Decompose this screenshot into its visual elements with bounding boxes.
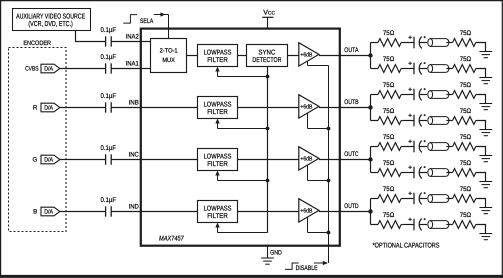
wire branch C2 lead: [371, 172, 379, 174]
wire to output cap (branch A2): [401, 68, 414, 70]
disable wire with arrow: [314, 261, 328, 265]
svg-text:SYNC: SYNC: [258, 49, 275, 56]
svg-text:75Ω: 75Ω: [460, 186, 471, 193]
svg-text:+6dB: +6dB: [300, 208, 312, 215]
D/A converter (R): [41, 103, 60, 112]
amp D enable stub wire: [308, 217, 329, 232]
D/A converter (B): [41, 207, 60, 216]
resistor 75ohm series (branch A2): [378, 56, 401, 73]
wire INC pin to lowpass filter C: [141, 159, 198, 161]
coax connector (branch A1): [428, 39, 449, 47]
svg-text:OUTB: OUTB: [344, 99, 359, 106]
amp A enable stub wire: [308, 61, 329, 65]
wire amp C to OUTC pin: [319, 159, 341, 161]
svg-text:75Ω: 75Ω: [383, 212, 394, 219]
resistor 75ohm load (branch C1): [453, 134, 476, 151]
wire to output cap (branch B2): [401, 120, 414, 122]
resistor 75ohm load (branch A2): [453, 56, 476, 73]
wire connector to load resistor (branch B1): [446, 94, 452, 96]
riser wire OUTB branches: [370, 95, 372, 121]
wire cap to INA2 pin: [111, 41, 141, 43]
wire lowpass filter C to amp C: [238, 159, 299, 161]
op-amp +6dB (channel D): [299, 199, 319, 222]
wire amp B to OUTB pin: [319, 107, 341, 109]
wire connector to load resistor (branch D1): [446, 198, 452, 200]
feedback line to lowpass filter A with arrow: [215, 67, 267, 77]
wire cap to INC pin: [111, 159, 141, 161]
resistor 75ohm series (branch B2): [378, 108, 401, 125]
wire OUTA to splitter node: [341, 55, 371, 57]
wire branch C1 lead: [371, 146, 379, 148]
wire to output cap (branch D1): [401, 198, 414, 200]
wire D/A to coupling cap (INC): [60, 159, 105, 161]
wire to output cap (branch C1): [401, 146, 414, 148]
svg-text:MUX: MUX: [162, 57, 174, 64]
capacitor optional output (branch A1): [408, 36, 425, 49]
wire cap to connector (branch D1): [419, 198, 427, 200]
wire OUTB to splitter node: [341, 107, 371, 109]
lowpass filter block (channel B): [198, 97, 238, 119]
op-amp +6dB (channel C): [299, 147, 319, 170]
wire branch A1 lead: [371, 42, 379, 44]
wire D/A to coupling cap (INB): [60, 107, 105, 109]
lowpass filter block (channel C): [198, 149, 238, 171]
resistor 75ohm series (branch C2): [378, 160, 401, 177]
capacitor optional output (branch C2): [408, 166, 425, 179]
wire connector to load resistor (branch A1): [446, 42, 452, 44]
resistor 75ohm load (branch B2): [453, 108, 476, 125]
svg-text:D/A: D/A: [44, 209, 53, 216]
wire to output cap (branch A1): [401, 42, 414, 44]
capacitor C5 0.1uF (IND): [101, 197, 117, 217]
wire to output cap (branch B1): [401, 94, 414, 96]
wire cap to connector (branch C2): [419, 172, 427, 174]
svg-text:75Ω: 75Ω: [460, 134, 471, 141]
2-to-1 mux block: [151, 39, 187, 73]
svg-text:D/A: D/A: [44, 105, 53, 112]
D/A converter (CVBS): [41, 64, 60, 73]
svg-text:75Ω: 75Ω: [460, 56, 471, 63]
svg-text:INA2: INA2: [126, 34, 139, 41]
capacitor C2 0.1uF (INA1): [101, 54, 117, 74]
sync detector block: [247, 45, 288, 67]
svg-text:75Ω: 75Ω: [383, 56, 394, 63]
resistor 75ohm load (branch C2): [453, 160, 476, 177]
svg-text:0.1µF: 0.1µF: [101, 54, 117, 61]
svg-text:(VCR, DVD, ETC.): (VCR, DVD, ETC.): [28, 20, 73, 28]
Vcc supply symbol: [262, 10, 275, 29]
svg-text:FILTER: FILTER: [207, 57, 228, 64]
wire branch D2 lead: [371, 224, 379, 226]
lowpass filter block (channel D): [198, 201, 238, 223]
node OUTC junction: [368, 157, 372, 161]
coax connector (branch D1): [428, 195, 449, 203]
wire cap to IND pin: [111, 211, 141, 213]
wire connector to load resistor (branch C1): [446, 146, 452, 148]
wire cap to connector (branch A2): [419, 68, 427, 70]
riser wire OUTD branches: [370, 199, 372, 225]
wire lowpass filter D to amp D: [238, 211, 299, 213]
svg-text:LOWPASS: LOWPASS: [204, 101, 232, 108]
capacitor optional output (branch D2): [408, 218, 425, 231]
wire from auxiliary source to INA2 coupling cap: [76, 31, 106, 42]
svg-text:75Ω: 75Ω: [460, 212, 471, 219]
coax connector (branch A2): [428, 65, 449, 73]
junction node (sync feedback A): [266, 75, 270, 79]
capacitor C3 0.1uF (INB): [101, 93, 117, 113]
wire branch B2 lead: [371, 120, 379, 122]
coax connector (branch C2): [428, 169, 449, 177]
svg-text:OUTD: OUTD: [344, 203, 358, 210]
svg-text:+6dB: +6dB: [300, 52, 312, 59]
svg-text:+6dB: +6dB: [300, 156, 312, 163]
wire cap to connector (branch B2): [419, 120, 427, 122]
coax connector (branch D2): [428, 221, 449, 229]
riser wire OUTA branches: [370, 43, 372, 69]
encoder dashed box: [9, 48, 67, 232]
wire connector to load resistor (branch A2): [446, 68, 452, 70]
svg-text:G: G: [32, 157, 37, 164]
svg-text:75Ω: 75Ω: [383, 160, 394, 167]
svg-text:INA1: INA1: [126, 61, 139, 68]
resistor 75ohm load (branch D2): [453, 212, 476, 229]
ground (branch A1): [479, 52, 492, 58]
svg-text:INC: INC: [129, 152, 139, 159]
wire to output cap (branch C2): [401, 172, 414, 174]
ground (branch A2): [479, 78, 492, 84]
feedback line to lowpass filter C with arrow: [215, 171, 267, 181]
wire D/A to coupling cap (INA1): [60, 68, 105, 70]
svg-text:FILTER: FILTER: [207, 213, 228, 220]
wire OUTC to splitter node: [341, 159, 371, 161]
wire lowpass filter B to amp B: [238, 107, 299, 109]
wire connector to load resistor (branch C2): [446, 172, 452, 174]
svg-text:B: B: [33, 209, 37, 216]
svg-text:MAX7457: MAX7457: [159, 236, 185, 243]
svg-text:75Ω: 75Ω: [383, 134, 394, 141]
op-amp +6dB (channel B): [299, 95, 319, 118]
wire INB pin to lowpass filter B: [141, 107, 198, 109]
wire to output cap (branch D2): [401, 224, 414, 226]
svg-text:75Ω: 75Ω: [383, 30, 394, 37]
capacitor optional output (branch B2): [408, 114, 425, 127]
border frame: [0, 0, 503, 2]
ground (branch D2): [479, 234, 492, 240]
svg-text:2-TO-1: 2-TO-1: [160, 48, 179, 55]
lowpass filter block (channel A): [198, 45, 238, 67]
svg-text:DISABLE: DISABLE: [296, 265, 318, 272]
wire to ground (branch A2): [476, 69, 486, 78]
encoder label: [22, 40, 53, 48]
svg-text:CC: CC: [268, 11, 276, 17]
wire cap to connector (branch C1): [419, 146, 427, 148]
svg-text:OUTC: OUTC: [344, 151, 358, 158]
svg-text:SELA: SELA: [140, 18, 154, 25]
svg-text:FILTER: FILTER: [207, 109, 228, 116]
feedback line to lowpass filter D with arrow: [215, 223, 267, 233]
wire cap to connector (branch B1): [419, 94, 427, 96]
wire to ground (branch B1): [476, 95, 486, 104]
wire lowpass filter A to sync detector: [238, 55, 247, 57]
ground (branch C1): [479, 156, 492, 162]
junction node (disable rail C): [327, 179, 331, 183]
ground (branch B1): [479, 104, 492, 110]
wire to ground (branch C2): [476, 173, 486, 182]
wire cap to connector (branch A1): [419, 42, 427, 44]
junction node (disable rail B): [327, 127, 331, 131]
ground (branch B2): [479, 130, 492, 136]
svg-text:+6dB: +6dB: [300, 104, 312, 111]
svg-text:0.1µF: 0.1µF: [101, 197, 117, 204]
node OUTA junction: [368, 53, 372, 57]
wire D/A to coupling cap (IND): [60, 211, 105, 213]
amp B enable stub wire: [308, 113, 329, 128]
wire cap to INA1 pin: [111, 68, 141, 70]
wire INA2 to mux: [141, 41, 151, 43]
resistor 75ohm series (branch D2): [378, 212, 401, 229]
D/A converter (G): [41, 155, 60, 164]
capacitor optional output (branch B1): [408, 88, 425, 101]
wire to ground (branch D1): [476, 199, 486, 208]
svg-text:LOWPASS: LOWPASS: [204, 153, 232, 160]
svg-text:75Ω: 75Ω: [383, 186, 394, 193]
svg-text:D/A: D/A: [44, 66, 53, 73]
svg-text:ENCODER: ENCODER: [23, 40, 51, 47]
svg-text:R: R: [33, 105, 38, 112]
coax connector (branch B2): [428, 117, 449, 125]
amp C enable stub wire: [308, 165, 329, 180]
capacitor C4 0.1uF (INC): [101, 145, 117, 165]
sync detector feedback line (vertical): [267, 67, 269, 233]
wire branch D1 lead: [371, 198, 379, 200]
node OUTD junction: [368, 209, 372, 213]
resistor 75ohm load (branch B1): [453, 82, 476, 99]
resistor 75ohm load (branch D1): [453, 186, 476, 203]
svg-text:GND: GND: [270, 250, 282, 257]
resistor 75ohm load (branch A1): [453, 30, 476, 47]
resistor 75ohm series (branch D1): [378, 186, 401, 203]
wire to ground (branch A1): [476, 43, 486, 52]
svg-text:INB: INB: [129, 100, 140, 107]
wire amp A to OUTA pin: [319, 55, 341, 57]
resistor 75ohm series (branch C1): [378, 134, 401, 151]
capacitor optional output (branch D1): [408, 192, 425, 205]
wire INA1 to mux: [141, 68, 151, 70]
junction node (sync feedback C): [266, 179, 270, 183]
coax connector (branch C1): [428, 143, 449, 151]
coax connector (branch B1): [428, 91, 449, 99]
resistor 75ohm series (branch B1): [378, 82, 401, 99]
wire branch A2 lead: [371, 68, 379, 70]
capacitor optional output (branch C1): [408, 140, 425, 153]
ground (branch C2): [479, 182, 492, 188]
svg-text:75Ω: 75Ω: [383, 82, 394, 89]
SELA logic input symbol: [123, 15, 137, 24]
feedback line to lowpass filter B with arrow: [215, 119, 267, 129]
svg-text:LOWPASS: LOWPASS: [204, 49, 232, 56]
wire to ground (branch C1): [476, 147, 486, 156]
svg-text:0.1µF: 0.1µF: [101, 93, 117, 100]
auxiliary video source box: [13, 9, 91, 31]
wire branch B1 lead: [371, 94, 379, 96]
resistor 75ohm series (branch A1): [378, 30, 401, 47]
wire to ground (branch D2): [476, 225, 486, 234]
svg-text:LOWPASS: LOWPASS: [204, 205, 232, 212]
ground pin symbol: [261, 246, 282, 264]
junction node (disable rail D): [327, 231, 331, 235]
capacitor optional output (branch A2): [408, 62, 425, 75]
disable rail (vertical): [328, 66, 330, 264]
svg-text:*OPTIONAL CAPACITORS: *OPTIONAL CAPACITORS: [373, 243, 440, 250]
node OUTB junction: [368, 105, 372, 109]
op-amp +6dB (channel A): [299, 43, 319, 66]
svg-text:75Ω: 75Ω: [460, 82, 471, 89]
svg-text:D/A: D/A: [44, 157, 53, 164]
wire IND pin to lowpass filter D: [141, 211, 198, 213]
svg-text:IND: IND: [129, 204, 139, 211]
riser wire OUTC branches: [370, 147, 372, 173]
IC U1 MAX7457 outline: [141, 29, 340, 246]
svg-text:0.1µF: 0.1µF: [101, 27, 117, 34]
wire cap to INB pin: [111, 107, 141, 109]
capacitor C1 0.1uF (INA2): [101, 27, 117, 47]
wire cap to connector (branch D2): [419, 224, 427, 226]
SELA wire with arrow into mux: [154, 12, 169, 38]
svg-text:0.1µF: 0.1µF: [101, 145, 117, 152]
svg-text:75Ω: 75Ω: [460, 160, 471, 167]
svg-text:FILTER: FILTER: [207, 161, 228, 168]
wire sync detector to amp A: [288, 55, 299, 57]
wire amp D to OUTD pin: [319, 211, 341, 213]
wire to ground (branch B2): [476, 121, 486, 130]
ground (branch D1): [479, 208, 492, 214]
wire connector to load resistor (branch B2): [446, 120, 452, 122]
svg-text:DETECTOR: DETECTOR: [252, 57, 281, 64]
wire connector to load resistor (branch D2): [446, 224, 452, 226]
svg-text:75Ω: 75Ω: [383, 108, 394, 115]
junction node (sync feedback B): [266, 127, 270, 131]
svg-text:CVBS: CVBS: [25, 66, 39, 73]
wire OUTD to splitter node: [341, 211, 371, 213]
svg-text:OUTA: OUTA: [344, 47, 359, 54]
svg-text:75Ω: 75Ω: [460, 108, 471, 115]
svg-text:75Ω: 75Ω: [460, 30, 471, 37]
disable logic input symbol: [285, 263, 299, 269]
wire mux to lowpass filter A: [187, 55, 198, 57]
